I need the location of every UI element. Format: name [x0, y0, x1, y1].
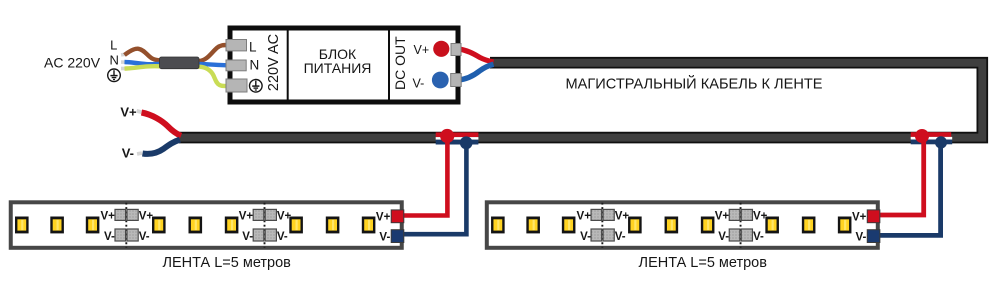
node: right tap blue bar (V-) on trunk cable	[911, 140, 953, 145]
svg-text:V-: V-	[242, 231, 253, 243]
svg-text:V-: V-	[277, 231, 288, 243]
svg-text:V+: V+	[615, 211, 630, 223]
solder/cut joint S2-J1 dotted cut line	[601, 203, 603, 248]
terminal L (PSU input)	[226, 40, 247, 51]
svg-text:V-: V-	[379, 232, 390, 244]
svg-text:V+: V+	[139, 211, 154, 223]
svg-text:V-: V-	[753, 231, 764, 243]
LED S16	[225, 217, 239, 234]
LED S18	[326, 217, 340, 234]
svg-text:V-: V-	[855, 232, 866, 244]
labels V- V- at joint S1-J2	[242, 231, 288, 243]
feed stub nub blue	[137, 151, 143, 156]
labels V- V- at joint S1-J1	[104, 231, 150, 243]
svg-text:V-: V-	[580, 231, 591, 243]
right tap white gap	[911, 137, 953, 140]
svg-text:V-: V-	[413, 76, 425, 90]
joint S1-J2 pad blocks V- row	[253, 229, 276, 241]
wire tip nub (phase)	[121, 52, 126, 56]
terminal pad V- (blue) on S1	[391, 230, 404, 243]
joint S2-J1 pad blocks V+ row	[591, 209, 614, 220]
wire: brown phase L from cord to PSU terminal	[125, 45, 229, 61]
ground symbol (mains earth, circled)	[108, 69, 121, 82]
junction dot: right red	[915, 129, 929, 143]
main trunk cable inner grey body	[179, 63, 982, 138]
svg-text:ЛЕНТА L=5 метров: ЛЕНТА L=5 метров	[639, 255, 768, 271]
svg-text:МАГИСТРАЛЬНЫЙ КАБЕЛЬ К ЛЕНТЕ: МАГИСТРАЛЬНЫЙ КАБЕЛЬ К ЛЕНТЕ	[565, 75, 822, 93]
joint S2-J2 pad blocks V- row	[729, 229, 752, 241]
svg-text:V+: V+	[577, 211, 592, 223]
power supply unit (БЛОК ПИТАНИЯ) body	[230, 28, 458, 102]
svg-text:N: N	[110, 53, 119, 68]
svg-text:220V AC: 220V AC	[266, 34, 282, 91]
terminal pad V+ (red) on S2	[867, 210, 880, 223]
LED S21	[491, 217, 505, 234]
wire: blue V- drop to left strip	[404, 144, 467, 234]
LED S27	[765, 217, 779, 234]
joint S1-J2 pad blocks V+ row	[253, 209, 276, 220]
main trunk cable (МАГИСТРАЛЬНЫЙ КАБЕЛЬ) outer black sheath	[179, 63, 982, 138]
svg-text:V+: V+	[376, 211, 391, 223]
svg-text:V+: V+	[277, 211, 292, 223]
svg-text:V+: V+	[852, 211, 867, 223]
labels V- V- at joint S2-J1	[580, 231, 626, 243]
wire tip nub (neutral)	[121, 60, 126, 64]
LED S13	[86, 217, 100, 234]
wire: red V+ from PSU terminal to trunk cable	[457, 49, 494, 62]
node: left tap blue bar (V-) on trunk cable	[436, 140, 479, 145]
terminal pad V+ (red) on S1	[391, 210, 404, 223]
svg-text:L: L	[249, 39, 257, 54]
divider between input and label sections	[287, 31, 289, 100]
terminal N (PSU input)	[226, 60, 246, 71]
labels V+ V+ at joint S2-J1	[577, 211, 630, 223]
LED S25	[665, 217, 679, 234]
wire: red V+ drop to left strip	[404, 138, 448, 216]
LED S19	[362, 217, 376, 234]
wire: blue V- feed stub into trunk cable	[143, 140, 181, 154]
LED S17	[289, 217, 303, 234]
svg-text:L: L	[110, 38, 117, 53]
LED S29	[838, 217, 852, 234]
labels V- V- at joint S2-J2	[718, 231, 764, 243]
svg-text:V-: V-	[718, 231, 729, 243]
labels V+ V+ at joint S1-J1	[101, 211, 154, 223]
ground symbol at PSU terminal (circled earth)	[250, 80, 263, 93]
svg-text:V+: V+	[715, 211, 730, 223]
svg-text:V+: V+	[414, 43, 430, 57]
wire: blue neutral N from cord to PSU terminal	[125, 62, 228, 65]
output terminal lug V-	[451, 74, 462, 87]
junction dot: left red	[440, 129, 454, 143]
wire tip nub (earth)	[121, 67, 126, 71]
labels V+ V+ at joint S2-J2	[715, 211, 768, 223]
node: right tap red bar (V+) on trunk cable	[911, 132, 952, 137]
svg-text:V+: V+	[239, 211, 254, 223]
joint S1-J1 pad blocks V- row	[115, 229, 138, 241]
svg-text:V+: V+	[120, 105, 137, 120]
LED strip S1 (ЛЕНТА) body	[11, 202, 402, 248]
solder/cut joint S1-J2 dotted cut line	[264, 203, 266, 248]
solder/cut joint S2-J2 dotted cut line	[740, 203, 742, 248]
svg-text:V-: V-	[615, 231, 626, 243]
LED strip S2 (ЛЕНТА) body	[487, 202, 878, 248]
junction dot: right blue	[935, 136, 947, 148]
LED S15	[189, 217, 203, 234]
joint S1-J1 pad blocks V+ row	[115, 209, 138, 220]
divider between label and output sections	[388, 31, 390, 100]
labels V+ V+ at joint S1-J2	[239, 211, 292, 223]
LED S26	[701, 217, 715, 234]
svg-text:V-: V-	[139, 231, 150, 243]
LED S23	[562, 217, 576, 234]
svg-text:N: N	[250, 58, 260, 73]
terminal PE (PSU input, earth)	[226, 79, 247, 92]
wire: blue V- from PSU terminal to trunk cable	[458, 64, 494, 80]
output V- contact (blue)	[432, 72, 449, 89]
LED S28	[802, 217, 816, 234]
wire: yellow-green earth from cord to PSU terminal	[125, 66, 229, 86]
LED S22	[526, 217, 540, 234]
output terminal lug V+	[451, 44, 461, 56]
wire: red V+ feed stub into trunk cable	[142, 113, 182, 136]
LED S24	[628, 217, 642, 234]
svg-text:V-: V-	[104, 231, 115, 243]
svg-text:ЛЕНТА L=5 метров: ЛЕНТА L=5 метров	[163, 255, 292, 271]
terminal pad V- (blue) on S2	[867, 230, 880, 243]
node: left tap red bar (V+) on trunk cable	[436, 132, 479, 137]
svg-text:V+: V+	[101, 211, 116, 223]
svg-text:DC OUT: DC OUT	[392, 36, 408, 90]
svg-text:V+: V+	[753, 211, 768, 223]
wire: red V+ drop to right strip	[879, 138, 924, 215]
svg-text:ПИТАНИЯ: ПИТАНИЯ	[304, 60, 372, 76]
junction dot: left blue	[460, 136, 473, 149]
LED S12	[50, 217, 64, 234]
LED S11	[15, 217, 29, 234]
svg-text:AC 220V: AC 220V	[44, 55, 101, 71]
output V+ contact (red)	[433, 41, 449, 57]
left tap white gap	[436, 137, 479, 140]
feed stub nub red	[136, 109, 142, 114]
AC cord sleeve	[160, 57, 200, 69]
solder/cut joint S1-J1 dotted cut line	[125, 203, 127, 248]
wire: blue V- drop to right strip	[879, 144, 941, 235]
joint S2-J1 pad blocks V- row	[591, 229, 614, 241]
joint S2-J2 pad blocks V+ row	[729, 209, 752, 220]
LED S14	[152, 217, 166, 234]
svg-text:V-: V-	[122, 145, 134, 160]
